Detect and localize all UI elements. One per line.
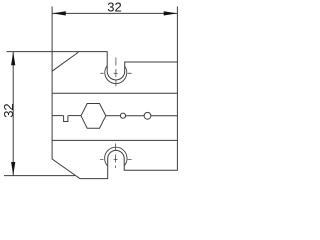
- bottom hole vertical centerline: [115, 144, 117, 169]
- top dimension extension line left: [51, 7, 53, 52]
- top dimension line: [52, 12, 177, 14]
- top dimension arrow right: [164, 11, 178, 15]
- internal horizontal edge upper: [52, 92, 177, 94]
- small hole 2: [144, 112, 151, 119]
- hexagon socket: [81, 104, 106, 129]
- part outline: [52, 52, 177, 179]
- middle profile rectangular notch: [64, 116, 68, 122]
- top counterbore circle (clipped by slot walls): [105, 66, 127, 84]
- middle profile line left segment: [52, 115, 64, 117]
- middle profile line right segment: [151, 115, 178, 117]
- top dimension arrow left: [52, 11, 66, 15]
- internal horizontal edge lower: [52, 139, 177, 141]
- top dimension extension line right: [176, 7, 178, 63]
- bottom counterbore circle (clipped by slot walls): [105, 147, 127, 166]
- top hole horizontal centerline: [100, 72, 131, 74]
- internal diagonal edge top-left: [52, 52, 78, 71]
- left dimension extension line top: [7, 51, 53, 53]
- middle profile line between holes: [126, 115, 145, 117]
- small hole 1: [120, 113, 125, 118]
- left dimension arrow up: [11, 52, 15, 65]
- left dimension extension line bottom: [4, 175, 75, 177]
- svg-text:32: 32: [1, 103, 16, 117]
- bottom hole horizontal centerline: [100, 158, 132, 160]
- svg-text:32: 32: [107, 0, 121, 15]
- left dimension line: [12, 52, 14, 176]
- left dimension arrow down: [11, 162, 15, 175]
- middle profile line hexagon to first hole: [106, 115, 121, 117]
- middle profile line to hexagon: [68, 115, 81, 117]
- top hole vertical centerline: [115, 58, 117, 87]
